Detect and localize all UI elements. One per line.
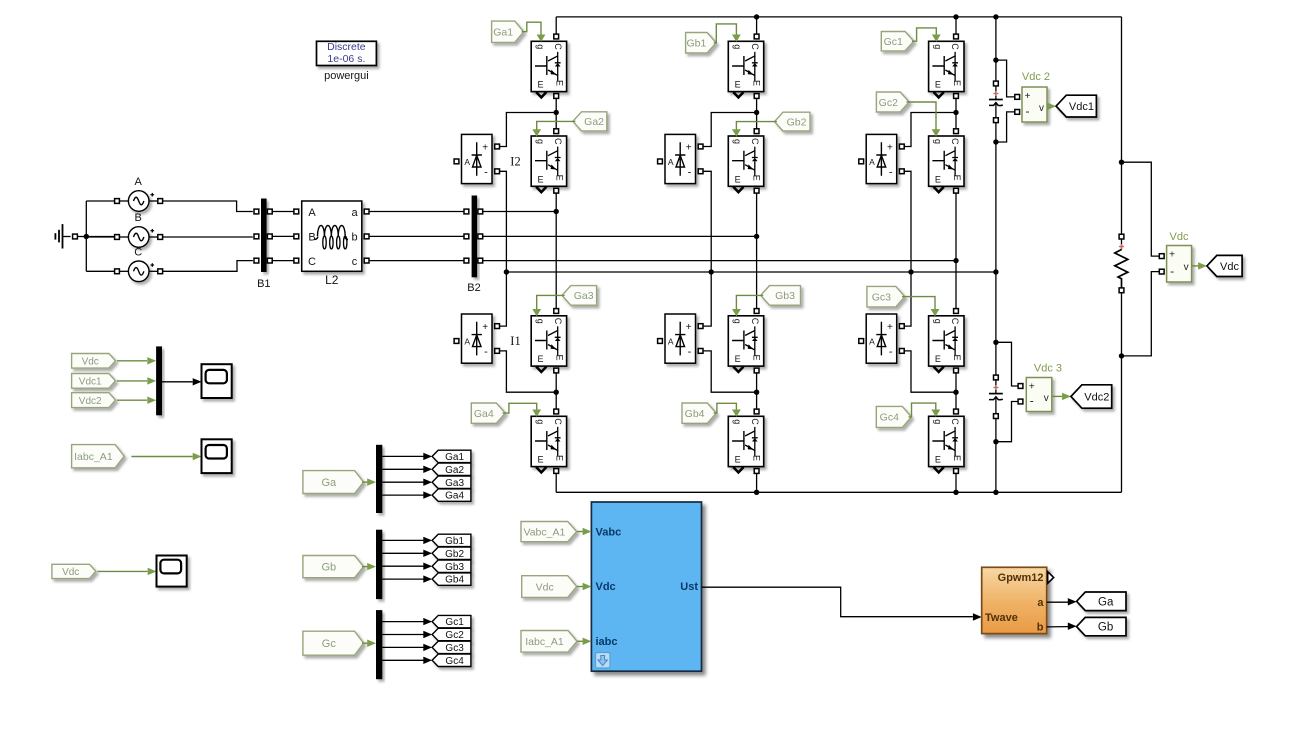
svg-text:C: C bbox=[750, 318, 760, 325]
wire Gc1 gate bbox=[912, 28, 936, 41]
svg-text:-: - bbox=[889, 166, 893, 178]
bus bar B1 bbox=[261, 199, 267, 273]
svg-text:A: A bbox=[869, 337, 875, 347]
wire demux to Gb4 bbox=[382, 578, 423, 580]
Goto tag Ga1 bbox=[432, 450, 471, 462]
svg-text:Vdc 3: Vdc 3 bbox=[1034, 363, 1062, 375]
AC voltage source C bbox=[128, 261, 149, 282]
svg-text:-: - bbox=[1030, 394, 1034, 408]
From tag Gb1 bbox=[686, 33, 717, 54]
svg-text:g: g bbox=[536, 319, 546, 324]
From tag Gc1 bbox=[881, 32, 914, 51]
wire L2 to bus B2 bbox=[369, 211, 464, 213]
svg-text:B: B bbox=[308, 231, 315, 243]
IGBT Qc4 bbox=[929, 416, 964, 466]
Goto tag Gc1 bbox=[432, 615, 471, 627]
wire bottom DC bus bbox=[556, 491, 1121, 493]
svg-text:-: - bbox=[688, 346, 692, 358]
wire Vdc to scope3 bbox=[98, 570, 148, 572]
wire Vdc output bbox=[1192, 265, 1200, 267]
wire Iabc_A1 to scope2 bbox=[131, 456, 192, 458]
svg-text:Vdc: Vdc bbox=[1220, 261, 1239, 273]
svg-text:Gb4: Gb4 bbox=[445, 575, 464, 586]
wire source C to bus B1 bbox=[163, 261, 253, 272]
wire leg a vertical segments bbox=[555, 17, 557, 34]
AC voltage source B bbox=[128, 227, 149, 248]
svg-text:Gc4: Gc4 bbox=[880, 412, 899, 424]
wire phase A from B2 to leg a bbox=[483, 211, 556, 213]
IGBT Qa3 bbox=[531, 316, 566, 366]
From tag Vdc (to controller) bbox=[522, 576, 577, 598]
wire Ga2 gate bbox=[537, 121, 576, 129]
svg-text:Ga4: Ga4 bbox=[445, 491, 464, 502]
svg-text:Vdc: Vdc bbox=[62, 567, 79, 578]
svg-text:Iabc_A1: Iabc_A1 bbox=[525, 636, 564, 648]
svg-text:+: + bbox=[1025, 91, 1031, 102]
Goto tag Gb (output) bbox=[1077, 617, 1126, 635]
Goto tag Vdc bbox=[1207, 255, 1242, 276]
voltage measurement Vdc bbox=[1167, 246, 1192, 283]
svg-text:Gb3: Gb3 bbox=[775, 290, 795, 302]
svg-text:C: C bbox=[950, 43, 960, 50]
svg-text:Ga3: Ga3 bbox=[574, 290, 594, 302]
svg-text:Vdc2: Vdc2 bbox=[1084, 392, 1109, 404]
svg-text:C: C bbox=[553, 43, 563, 50]
From tag Vabc_A1 bbox=[521, 522, 577, 542]
svg-text:E: E bbox=[537, 80, 543, 90]
wire right branch with resistor bbox=[1121, 17, 1123, 234]
wire phase C from B2 to leg c bbox=[483, 260, 956, 262]
svg-text:Ga1: Ga1 bbox=[493, 27, 513, 39]
svg-text:g: g bbox=[536, 139, 546, 144]
svg-text:C: C bbox=[950, 418, 960, 425]
node capacitor junctions bbox=[993, 57, 998, 62]
svg-text:I1: I1 bbox=[510, 334, 520, 348]
wire demux to Ga2 bbox=[382, 468, 423, 470]
From tag Gc bbox=[303, 631, 364, 655]
scope Scope1 bbox=[202, 364, 232, 398]
svg-text:Gb3: Gb3 bbox=[445, 562, 464, 573]
wire Gb3 gate bbox=[736, 295, 763, 309]
svg-text:Vdc1: Vdc1 bbox=[79, 377, 102, 388]
Goto tag Ga2 bbox=[432, 463, 471, 475]
svg-text:Ust: Ust bbox=[680, 581, 698, 593]
svg-text:Gc: Gc bbox=[322, 638, 337, 650]
svg-text:Vdc: Vdc bbox=[596, 581, 616, 593]
resistor R1 bbox=[1119, 234, 1124, 239]
svg-text:L2: L2 bbox=[325, 273, 339, 287]
From tag Ga2 bbox=[573, 112, 607, 131]
From tag Iabc_A1 (to controller) bbox=[521, 631, 577, 653]
bus bar B2 bbox=[472, 196, 478, 278]
svg-text:E: E bbox=[555, 80, 565, 86]
clamp diode Da upper bbox=[462, 134, 493, 183]
wire demux to Gc3 bbox=[382, 646, 423, 648]
Goto tag Ga3 bbox=[432, 476, 471, 488]
wire clamp diode lower b bbox=[703, 272, 711, 326]
wire a to Goto Ga bbox=[1047, 601, 1068, 603]
capacitor C1 bbox=[994, 81, 999, 86]
svg-text:E: E bbox=[752, 175, 762, 181]
svg-text:+: + bbox=[482, 142, 488, 153]
svg-text:Ga2: Ga2 bbox=[445, 465, 464, 476]
wire Vdc measurement - to bottom branch bbox=[1122, 272, 1160, 356]
svg-text:E: E bbox=[555, 455, 565, 461]
subsystem open badge bbox=[596, 653, 611, 669]
wire leg c vertical segments bbox=[955, 17, 957, 34]
svg-text:C: C bbox=[134, 246, 142, 258]
From tag Gc3 bbox=[867, 286, 905, 307]
svg-text:a: a bbox=[1037, 597, 1044, 609]
From tag Vdc (to scope3) bbox=[52, 564, 96, 578]
wire Vdc2 output bbox=[1047, 105, 1050, 107]
scope Scope3 bbox=[157, 556, 187, 587]
svg-text:Gpwm12: Gpwm12 bbox=[998, 572, 1044, 584]
Goto tag Gb3 bbox=[432, 560, 471, 572]
svg-text:g: g bbox=[733, 44, 743, 49]
wire leg b vertical segments bbox=[756, 17, 758, 34]
Goto tag Vdc1 bbox=[1056, 95, 1096, 117]
wire demux to Ga4 bbox=[382, 494, 423, 496]
wire demux to Gb1 bbox=[382, 539, 423, 541]
wire Iabc_A1 to controller bbox=[577, 640, 583, 642]
wire Gb to demux bbox=[362, 566, 368, 568]
svg-text:Ga: Ga bbox=[321, 477, 337, 489]
svg-text:E: E bbox=[735, 354, 741, 364]
wire Ga1 gate bbox=[522, 22, 541, 35]
Goto tag Gc3 bbox=[432, 641, 471, 653]
AC voltage source A bbox=[128, 191, 149, 212]
wire demux to Gc1 bbox=[382, 621, 423, 623]
svg-text:B1: B1 bbox=[257, 278, 270, 290]
wire demux to Ga1 bbox=[382, 455, 423, 457]
svg-text:C: C bbox=[750, 418, 760, 425]
svg-text:+: + bbox=[887, 142, 893, 153]
svg-text:Gc2: Gc2 bbox=[879, 97, 898, 109]
wire demux to Gc4 bbox=[382, 659, 423, 661]
From tag Ga bbox=[303, 471, 364, 494]
svg-text:E: E bbox=[935, 354, 941, 364]
svg-text:g: g bbox=[933, 44, 943, 49]
svg-text:A: A bbox=[668, 157, 674, 167]
svg-text:Gb1: Gb1 bbox=[686, 38, 706, 50]
node midpoint bus taps bbox=[504, 269, 509, 274]
controller subsystem U1 bbox=[591, 502, 701, 671]
svg-text:Vabc: Vabc bbox=[596, 526, 622, 538]
IGBT Qb1 bbox=[728, 41, 763, 91]
svg-text:+: + bbox=[1029, 382, 1035, 393]
svg-text:+: + bbox=[482, 322, 488, 333]
svg-text:iabc: iabc bbox=[596, 636, 618, 648]
IGBT Qc1 bbox=[929, 41, 964, 91]
wire ground to sources bbox=[78, 236, 115, 238]
svg-text:Gc3: Gc3 bbox=[872, 291, 891, 303]
wire cap2 to Vdc 3 measurement bbox=[996, 342, 1018, 386]
svg-text:Ga1: Ga1 bbox=[445, 452, 464, 463]
wire B1 to L2 bbox=[272, 211, 294, 213]
svg-text:g: g bbox=[733, 419, 743, 424]
svg-text:+: + bbox=[686, 142, 692, 153]
PWM generator block Twave bbox=[982, 567, 1047, 633]
svg-text:A: A bbox=[464, 157, 470, 167]
wire Ga4 gate bbox=[503, 403, 537, 413]
svg-text:+: + bbox=[686, 322, 692, 333]
svg-text:E: E bbox=[952, 354, 962, 360]
svg-text:g: g bbox=[733, 139, 743, 144]
wire demux to Gb3 bbox=[382, 565, 423, 567]
node resistor branch junctions bbox=[1119, 160, 1124, 165]
wire demux to Gc2 bbox=[382, 634, 423, 636]
From tag Gc4 bbox=[876, 406, 911, 427]
wire clamp diode upper a bbox=[500, 113, 557, 147]
svg-text:g: g bbox=[933, 139, 943, 144]
IGBT Qb4 bbox=[728, 416, 763, 466]
clamp diode Db upper bbox=[665, 134, 696, 183]
svg-text:Vdc: Vdc bbox=[82, 356, 99, 367]
wire clamp diode upper b bbox=[703, 113, 757, 147]
From tag Gb3 bbox=[761, 286, 801, 306]
node ground junction bbox=[84, 234, 89, 239]
svg-text:Ga2: Ga2 bbox=[584, 116, 604, 128]
powergui block bbox=[317, 41, 377, 65]
svg-text:Gc3: Gc3 bbox=[445, 643, 464, 654]
svg-text:-: - bbox=[484, 166, 488, 178]
svg-text:C: C bbox=[950, 138, 960, 145]
svg-text:+: + bbox=[1169, 250, 1175, 261]
wire mux to scope1 bbox=[162, 381, 193, 383]
wire Vdc3 output bbox=[1052, 395, 1064, 397]
wire Ga to demux bbox=[362, 481, 368, 483]
svg-text:C: C bbox=[553, 138, 563, 145]
Goto tag Ga (output) bbox=[1077, 592, 1126, 611]
svg-text:powergui: powergui bbox=[324, 70, 369, 82]
wire Vdc2 to mux bbox=[117, 399, 147, 401]
wire source B to bus B1 bbox=[163, 236, 253, 238]
mux M1 bbox=[156, 346, 162, 415]
svg-text:Gb: Gb bbox=[1098, 622, 1113, 634]
svg-text:E: E bbox=[952, 80, 962, 86]
svg-text:Gb1: Gb1 bbox=[445, 536, 464, 547]
svg-text:-: - bbox=[1026, 104, 1030, 118]
wire Ust to Twave bbox=[702, 587, 973, 617]
IGBT Qb2 bbox=[728, 136, 763, 186]
From tag Gb4 bbox=[682, 403, 716, 423]
svg-text:A: A bbox=[135, 176, 143, 188]
demux Gb bbox=[376, 530, 382, 599]
wire demux to Gb2 bbox=[382, 552, 423, 554]
svg-text:1e-06 s.: 1e-06 s. bbox=[327, 53, 365, 65]
svg-text:Vdc: Vdc bbox=[1170, 231, 1189, 243]
From tag Ga3 bbox=[562, 286, 597, 306]
From tag Vdc (to mux) bbox=[72, 354, 116, 369]
svg-text:c: c bbox=[352, 256, 358, 268]
svg-text:E: E bbox=[537, 455, 543, 465]
wire Gc3 gate bbox=[902, 297, 935, 310]
svg-text:Twave: Twave bbox=[985, 612, 1018, 624]
node bottom bus junctions bbox=[754, 490, 759, 495]
wire midpoint bus bbox=[506, 271, 996, 273]
Goto tag Gb1 bbox=[432, 534, 471, 546]
svg-text:A: A bbox=[308, 207, 316, 219]
wire Gb1 gate bbox=[714, 24, 737, 43]
From tag Vdc2 (to mux) bbox=[72, 393, 116, 408]
From tag Ga4 bbox=[471, 403, 505, 423]
svg-text:-: - bbox=[484, 346, 488, 358]
wire Gc to demux bbox=[362, 642, 368, 644]
svg-text:Iabc_A1: Iabc_A1 bbox=[74, 451, 113, 463]
Goto tag Gc4 bbox=[432, 654, 471, 666]
svg-text:Gc1: Gc1 bbox=[884, 36, 903, 48]
voltage measurement Vdc 3 bbox=[1026, 378, 1052, 412]
svg-text:Discrete: Discrete bbox=[327, 41, 366, 53]
svg-text:E: E bbox=[537, 174, 543, 184]
wire Vdc to mux bbox=[117, 360, 147, 362]
svg-text:Gb2: Gb2 bbox=[445, 549, 464, 560]
svg-text:b: b bbox=[351, 231, 357, 243]
IGBT Qa1 bbox=[531, 41, 566, 91]
wire Gb4 gate bbox=[714, 403, 737, 413]
wire source A to bus B1 bbox=[163, 201, 253, 212]
node top bus junctions bbox=[754, 14, 759, 19]
wire Ga3 gate bbox=[537, 295, 565, 309]
svg-text:b: b bbox=[1037, 621, 1044, 633]
svg-text:C: C bbox=[950, 318, 960, 325]
svg-text:-: - bbox=[889, 346, 893, 358]
clamp diode Db lower bbox=[665, 314, 696, 363]
svg-text:E: E bbox=[752, 354, 762, 360]
wire demux to Ga3 bbox=[382, 481, 423, 483]
svg-text:E: E bbox=[752, 80, 762, 86]
svg-text:Ga3: Ga3 bbox=[445, 478, 464, 489]
wire top DC bus bbox=[556, 16, 1121, 18]
svg-text:Gc4: Gc4 bbox=[445, 656, 464, 667]
Goto tag Gb4 bbox=[432, 573, 471, 585]
wire Gc2 gate bbox=[907, 102, 937, 130]
svg-text:E: E bbox=[935, 174, 941, 184]
wire Vdc1 to mux bbox=[117, 380, 147, 382]
wire clamp diode lower c bbox=[904, 272, 911, 326]
From tag Gb2 bbox=[775, 112, 811, 131]
svg-text:-: - bbox=[688, 166, 692, 178]
svg-text:Vabc_A1: Vabc_A1 bbox=[523, 526, 565, 538]
svg-text:g: g bbox=[933, 319, 943, 324]
svg-text:-: - bbox=[1170, 264, 1174, 278]
From tag Ga1 bbox=[492, 21, 524, 42]
svg-text:g: g bbox=[933, 419, 943, 424]
node leg junctions J1 bbox=[554, 110, 559, 115]
svg-text:C: C bbox=[308, 256, 316, 268]
svg-text:v: v bbox=[1184, 262, 1189, 273]
node phase taps bbox=[554, 209, 559, 214]
From tag Gb bbox=[303, 556, 364, 578]
svg-text:E: E bbox=[735, 455, 741, 465]
svg-text:E: E bbox=[735, 174, 741, 184]
svg-text:E: E bbox=[935, 80, 941, 90]
capacitor C2 bbox=[994, 375, 999, 380]
IGBT Qb3 bbox=[728, 316, 763, 366]
IGBT Qa2 bbox=[531, 136, 566, 186]
wire Vdc measurement + to top branch bbox=[1122, 162, 1160, 256]
three-phase inductor L2 bbox=[302, 201, 362, 271]
clamp diode Da lower bbox=[462, 314, 493, 363]
voltage measurement Vdc 2 bbox=[1022, 87, 1047, 122]
wire cap1 to Vdc 2 measurement bbox=[996, 60, 1015, 97]
svg-text:E: E bbox=[537, 354, 543, 364]
svg-text:A: A bbox=[668, 337, 674, 347]
Goto tag Ga4 bbox=[432, 489, 471, 501]
svg-text:C: C bbox=[750, 43, 760, 50]
wire Gb2 gate bbox=[736, 122, 777, 130]
wire capacitor branch vertical bbox=[995, 17, 997, 81]
wire clamp diode upper c bbox=[904, 113, 956, 147]
IGBT Qc2 bbox=[929, 136, 964, 186]
svg-text:Gc1: Gc1 bbox=[445, 617, 464, 628]
svg-text:E: E bbox=[555, 175, 565, 181]
Goto tag Gb2 bbox=[432, 547, 471, 559]
From tag Iabc_A1 (to scope) bbox=[72, 445, 125, 468]
wire Gc4 gate bbox=[909, 403, 936, 417]
port Gpwm12 chevron bbox=[1048, 572, 1054, 584]
wire Vdc to controller bbox=[577, 586, 583, 588]
svg-text:Ga4: Ga4 bbox=[474, 408, 494, 420]
wire b to Goto Gb bbox=[1047, 626, 1068, 628]
svg-text:g: g bbox=[733, 319, 743, 324]
svg-text:E: E bbox=[735, 80, 741, 90]
svg-text:A: A bbox=[869, 157, 875, 167]
svg-text:C: C bbox=[553, 418, 563, 425]
IGBT Qa4 bbox=[531, 416, 566, 466]
svg-text:Vdc 2: Vdc 2 bbox=[1022, 71, 1050, 83]
From tag Vdc1 (to mux) bbox=[72, 374, 116, 389]
wire Vabc_A1 to controller bbox=[577, 531, 583, 533]
Goto tag Gc2 bbox=[432, 628, 471, 640]
Goto tag Vdc2 bbox=[1071, 385, 1112, 408]
svg-text:C: C bbox=[750, 138, 760, 145]
svg-text:I2: I2 bbox=[510, 154, 520, 168]
clamp diode Dc lower bbox=[866, 314, 897, 363]
svg-text:v: v bbox=[1039, 103, 1044, 114]
svg-text:v: v bbox=[1044, 393, 1049, 404]
svg-text:Gb4: Gb4 bbox=[685, 408, 705, 420]
svg-text:E: E bbox=[935, 455, 941, 465]
scope Scope2 bbox=[202, 439, 232, 473]
svg-text:B: B bbox=[135, 212, 142, 224]
svg-text:E: E bbox=[555, 354, 565, 360]
From tag Gc2 bbox=[876, 92, 909, 112]
svg-text:Gb: Gb bbox=[321, 562, 336, 574]
IGBT Qc3 bbox=[929, 316, 964, 366]
ground G1 bbox=[62, 224, 64, 248]
svg-text:g: g bbox=[536, 44, 546, 49]
wire phase B from B2 to leg b bbox=[483, 235, 757, 237]
clamp diode Dc upper bbox=[866, 134, 897, 183]
svg-text:+: + bbox=[887, 322, 893, 333]
svg-text:C: C bbox=[553, 318, 563, 325]
svg-text:Vdc: Vdc bbox=[536, 581, 554, 593]
svg-text:g: g bbox=[536, 419, 546, 424]
wire clamp diode lower a bbox=[500, 272, 507, 326]
svg-text:Gb2: Gb2 bbox=[787, 116, 807, 128]
svg-text:Vdc2: Vdc2 bbox=[79, 396, 102, 407]
svg-text:E: E bbox=[952, 455, 962, 461]
svg-text:a: a bbox=[351, 207, 358, 219]
svg-text:Vdc1: Vdc1 bbox=[1069, 101, 1094, 113]
svg-text:E: E bbox=[752, 455, 762, 461]
svg-text:B2: B2 bbox=[467, 282, 480, 294]
node leg junctions J3 bbox=[554, 390, 559, 395]
svg-text:E: E bbox=[952, 175, 962, 181]
demux Ga bbox=[376, 445, 382, 513]
